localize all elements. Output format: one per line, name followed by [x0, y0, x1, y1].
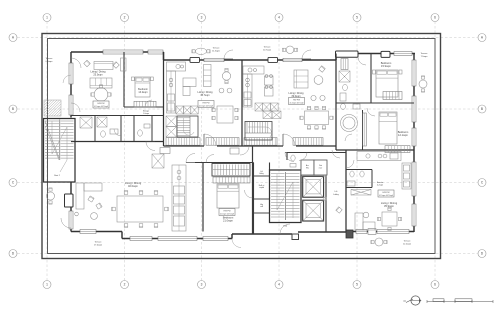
- corridor stair enclosure: [212, 164, 250, 177]
- svg-text:6: 6: [434, 16, 436, 20]
- svg-text:B: B: [481, 107, 483, 111]
- unit4 bath2 wc: [341, 104, 346, 110]
- window unit6 right: [412, 162, 416, 196]
- unit1 sofa bench: [90, 78, 112, 88]
- envelope step wall x163.5: [163, 52, 165, 60]
- grid bubble B right: [478, 105, 486, 113]
- elevator 2: [303, 200, 324, 221]
- acc wc room: [301, 160, 314, 175]
- wall marker unit2 top: [190, 57, 200, 62]
- envelope bottom wall west: [71, 231, 122, 233]
- svg-text:Terrace: Terrace: [264, 46, 272, 49]
- svg-text:1.0sqm: 1.0sqm: [143, 113, 149, 115]
- unit4 bed2: [379, 112, 397, 144]
- svg-text:12.2sqm: 12.2sqm: [403, 244, 411, 246]
- svg-text:N: N: [404, 299, 406, 303]
- terrace right table: [419, 80, 427, 88]
- unit3 wardrobe hatch row a: [255, 103, 263, 111]
- grid bubble C right: [478, 179, 486, 187]
- svg-text:35.7sqm: 35.7sqm: [200, 94, 209, 97]
- unit2 terrace door swing: [224, 50, 233, 59]
- svg-text:4.2sqm: 4.2sqm: [377, 185, 384, 187]
- unit4 bath2 tub: [341, 115, 358, 132]
- svg-text:41.5sqm 447.0sqft: 41.5sqm 447.0sqft: [379, 194, 393, 197]
- window unit5 left: [69, 211, 73, 229]
- unit4 ensuite shower: [339, 71, 350, 82]
- unit5 wardrobe row: [213, 177, 250, 183]
- unit6 area tag: [378, 190, 394, 197]
- unit3 clover chair a: [265, 76, 274, 85]
- unit2 poufs: [219, 88, 224, 93]
- unit2 kitchen counter top: [167, 62, 186, 71]
- lobby door arc: [332, 150, 340, 158]
- window unit4 right b: [412, 96, 416, 122]
- unit2 terrace table: [196, 48, 207, 54]
- svg-text:2: 2: [124, 16, 126, 20]
- terrace door unit2: [204, 58, 224, 61]
- grid bubble 4 top: [275, 14, 283, 22]
- svg-text:lobby: lobby: [259, 173, 263, 175]
- wc room fixtures: [291, 155, 295, 161]
- unit4 wardrobe row bed2: [385, 146, 410, 153]
- svg-text:11.3sqm: 11.3sqm: [212, 51, 220, 53]
- window unit1 top a: [103, 50, 143, 54]
- unit3 dining table: [305, 111, 329, 125]
- svg-text:40.0sqm: 40.0sqm: [128, 184, 138, 188]
- svg-text:HW FW: HW FW: [203, 102, 210, 104]
- parapet outer wall: [42, 34, 441, 259]
- rooflight box unit4 small: [381, 51, 390, 57]
- main stair treads left flight: [271, 173, 285, 175]
- unit2 wardrobe hatch: [176, 106, 183, 114]
- unit1 sofa: [94, 62, 113, 70]
- demising wall unit3/unit4: [335, 54, 337, 151]
- grid bubble D right: [478, 250, 486, 258]
- unit1 bedroom bed: [135, 77, 150, 97]
- svg-text:Lift: Lift: [335, 190, 338, 193]
- svg-text:riser: riser: [319, 167, 323, 169]
- unit3 area tag: [289, 98, 305, 105]
- unit4 bed1 side tables: [373, 70, 376, 74]
- bedroom5 right wall: [252, 146, 254, 234]
- wall unit1 bath zone: [71, 115, 164, 117]
- closet boxes corridor west: [152, 154, 164, 168]
- unit6 armchair: [336, 207, 342, 213]
- svg-text:3: 3: [201, 283, 203, 287]
- window unit1 left b: [69, 95, 73, 115]
- unit4 ensuite basin: [340, 93, 346, 101]
- core top rooms wall: [287, 152, 346, 154]
- unit4 terrace door arc top: [358, 57, 366, 65]
- parapet inner wall: [48, 39, 436, 254]
- svg-text:41.5sqm 447.0sqft: 41.5sqm 447.0sqft: [199, 104, 213, 107]
- unit5 kitchen counter: [172, 165, 186, 231]
- envelope bottom wall core: [232, 233, 292, 235]
- svg-text:41.5sqm 447.0sqft: 41.5sqm 447.0sqft: [290, 101, 304, 104]
- window unit5 bay c: [203, 237, 228, 241]
- scale bar: [427, 301, 493, 303]
- corridor south wall west: [195, 162, 254, 164]
- unit1 riser hatch: [80, 117, 92, 128]
- unit1 wc2 fixtures: [138, 130, 143, 136]
- grid line C: [18, 182, 478, 184]
- svg-text:7.9sqm: 7.9sqm: [421, 56, 428, 58]
- svg-text:Terrace: Terrace: [46, 57, 54, 60]
- wall unit1 bottom / unit5 top: [71, 141, 164, 143]
- riser shaft B: [324, 197, 326, 200]
- core bottom corridor door: [280, 224, 290, 234]
- unit1 bathroom wc: [101, 131, 106, 137]
- rooflight box unit4 long: [336, 51, 359, 57]
- unit3 terrace table: [286, 46, 294, 54]
- svg-text:15.9sqm: 15.9sqm: [381, 64, 391, 68]
- unit1 dining table: [94, 88, 108, 102]
- grid bubble 3 bottom: [198, 281, 206, 289]
- unit3 closet row a: [244, 138, 277, 146]
- svg-text:HW FW: HW FW: [224, 210, 231, 212]
- window unit6 bottom a: [356, 230, 367, 234]
- unit2 kitchen inner line: [170, 71, 172, 113]
- grid line 5: [356, 22, 358, 281]
- unit1 bedroom wardrobe stripes: [134, 101, 156, 107]
- envelope bottom bay wall: [122, 238, 232, 240]
- svg-text:cupbd: cupbd: [259, 187, 264, 189]
- svg-text:1: 1: [46, 283, 48, 287]
- svg-text:13.2sqm: 13.2sqm: [138, 91, 147, 94]
- unit2 bench seats: [204, 65, 212, 87]
- unit5 sofa: [76, 183, 84, 209]
- door unit6 terrace: [368, 229, 376, 235]
- unit6 tall counter: [402, 163, 411, 189]
- unit1 bedroom door arc: [145, 100, 152, 107]
- door arc unit2 entry: [204, 134, 216, 146]
- corridor stair treads: [214, 165, 216, 176]
- unit5 bedroom door arc: [245, 190, 253, 198]
- unit2 closet row a: [166, 138, 200, 146]
- grid bubble A right: [478, 34, 486, 42]
- envelope right wall: [413, 54, 415, 233]
- unit4 bed1: [376, 70, 398, 97]
- unit4 ensuite wc: [343, 84, 348, 90]
- unit1 storage wall: [124, 106, 164, 108]
- unit3 terrace door swing: [302, 50, 311, 59]
- unit5 entry door arc: [186, 154, 195, 163]
- window unit5 bay b: [158, 237, 197, 241]
- terrace left table: [47, 192, 55, 200]
- svg-text:HW FW: HW FW: [383, 192, 390, 194]
- core entry door arc b: [299, 153, 307, 161]
- grid bubble 1 bottom: [43, 281, 51, 289]
- unit6 sofa: [355, 213, 363, 230]
- grid line B: [18, 108, 478, 110]
- unit1 bathroom walls: [94, 116, 96, 142]
- unit4 bedroom2 door: [367, 108, 375, 116]
- svg-text:4: 4: [278, 283, 280, 287]
- main stair divider: [284, 172, 286, 220]
- stair2 treads flight B: [61, 120, 74, 122]
- unit6 bathroom walls: [346, 187, 372, 189]
- unit5 dining chairs: [124, 191, 128, 195]
- window unit1 top b: [148, 50, 163, 54]
- unit6 sideboard hatch: [351, 190, 371, 196]
- corridor door arc mid: [240, 146, 249, 155]
- unit5 floor lamp: [75, 212, 79, 216]
- wall unit4 bottom / unit6 top: [336, 149, 414, 151]
- terrace door arc bottom: [232, 239, 241, 248]
- grid line 3: [201, 22, 203, 281]
- svg-text:Stair 2: Stair 2: [54, 174, 61, 177]
- unit4 entry door arc: [345, 134, 352, 141]
- grid line 1: [46, 22, 48, 281]
- unit3 armchair diag: [319, 66, 325, 72]
- corridor door arc west: [206, 155, 214, 163]
- unit2 kitchen counter left: [167, 71, 176, 113]
- unit3 clover chair b: [265, 87, 274, 96]
- unit1 entry door arc: [146, 142, 155, 151]
- unit2 internal stair: [177, 116, 198, 137]
- grid bubble B left: [9, 105, 17, 113]
- stair2 enclosure: [44, 119, 76, 183]
- unit1 armchair left: [84, 60, 91, 67]
- grid bubble C left: [9, 179, 17, 187]
- envelope top wall unit1: [71, 51, 164, 53]
- unit5 area tag: [219, 209, 235, 216]
- unit6 entry door arc: [346, 160, 354, 168]
- riser room: [314, 160, 327, 175]
- stair2 treads flight A: [45, 120, 59, 122]
- svg-text:6: 6: [434, 283, 436, 287]
- unit4 closet row top: [383, 92, 402, 100]
- grid line 6: [434, 22, 436, 281]
- corridor stair centre line: [213, 169, 249, 171]
- corridor closet box b: [160, 148, 170, 154]
- riser shaft A: [324, 170, 326, 176]
- envelope bottom bay step b: [231, 234, 233, 239]
- svg-text:5: 5: [356, 283, 358, 287]
- unit5 dining table: [117, 196, 163, 222]
- elevator 1: [303, 176, 324, 197]
- unit4 bedroom1 wall: [336, 102, 414, 104]
- grid bubble 5 top: [353, 14, 361, 22]
- window unit5 bay a: [130, 237, 152, 241]
- left wall door box: [65, 194, 74, 207]
- unit1 armchair right: [113, 62, 120, 69]
- unit4 inner wall x362: [362, 110, 364, 150]
- unit3 poufs: [311, 95, 316, 100]
- envelope bottom bay step a: [121, 232, 123, 239]
- svg-text:Terrace: Terrace: [95, 241, 103, 244]
- grid bubble 4 bottom: [275, 281, 283, 289]
- elevator shaft east wall: [325, 170, 327, 232]
- unit5 left door arc: [61, 218, 71, 228]
- unit2 sofa chaise: [183, 78, 196, 87]
- unit1 terrace door arc left lower: [71, 103, 80, 112]
- window unit1 left a: [69, 63, 73, 84]
- terrace door arc left: [63, 75, 71, 83]
- window unit5 bottom west: [80, 230, 96, 234]
- window unit4 right a: [412, 60, 416, 86]
- grid line A: [18, 37, 478, 39]
- envelope left wall lower: [70, 182, 72, 232]
- unit2 dining table: [217, 106, 233, 123]
- door gap unit2 entry: [204, 144, 217, 147]
- svg-text:10.7sqm: 10.7sqm: [263, 50, 271, 52]
- unit4 duct below rooflight: [341, 59, 348, 70]
- demising wall unit1/unit2: [163, 52, 165, 146]
- grid bubble 1 top: [43, 14, 51, 22]
- core entry door arc a: [285, 153, 294, 162]
- unit1 bathroom shower: [97, 117, 107, 127]
- unit2 round table: [222, 72, 230, 80]
- unit2 closet row b: [206, 138, 239, 146]
- unit1 bedroom wall: [123, 52, 125, 107]
- grid bubble D left: [9, 250, 17, 258]
- svg-text:1: 1: [46, 16, 48, 20]
- demising wall unit2/unit3: [241, 60, 243, 146]
- svg-text:HW FW: HW FW: [293, 99, 300, 101]
- svg-text:Lobby: Lobby: [333, 194, 338, 196]
- unit1 tall cabinet: [121, 58, 127, 71]
- unit3 sofa: [294, 70, 308, 88]
- door gap unit3 entry: [283, 144, 296, 147]
- unit4 ensuite wall: [370, 54, 372, 104]
- grid bubble 3 top: [198, 14, 206, 22]
- svg-text:Terrace: Terrace: [213, 47, 221, 50]
- svg-text:4: 4: [278, 16, 280, 20]
- unit1 area tag: [93, 101, 109, 108]
- window unit6 right b: [412, 204, 416, 226]
- svg-text:B: B: [12, 107, 14, 111]
- unit4 bath2 basin: [353, 104, 360, 109]
- stair2 center divider: [59, 120, 61, 161]
- column bottom unit6: [346, 230, 353, 238]
- unit6 dining table: [382, 212, 397, 226]
- svg-text:17.0sqm: 17.0sqm: [94, 245, 102, 247]
- unit3 wardrobe hatch row b: [263, 111, 272, 119]
- unit5 bed: [217, 184, 239, 208]
- window unit4 right c: [412, 128, 416, 146]
- unit1 bed side tables: [132, 77, 135, 81]
- stair2 flight A diagonal: [45, 121, 59, 158]
- unit6 left wall: [345, 150, 347, 232]
- wall units2-3 bottom / corridor north: [164, 145, 337, 147]
- grid bubble 5 bottom: [353, 281, 361, 289]
- grid line D: [18, 253, 478, 255]
- grid bubble 6 bottom: [431, 281, 439, 289]
- unit6 bathroom fixtures: [350, 171, 354, 177]
- terrace bottom-right table: [375, 238, 383, 246]
- grid bubble 2 bottom: [121, 281, 129, 289]
- grid line 2: [124, 22, 126, 281]
- terrace door unit3: [283, 58, 302, 61]
- window unit6 bottom b: [377, 230, 409, 234]
- terrace top-left planter: [44, 100, 61, 116]
- svg-text:6.9sqm: 6.9sqm: [46, 61, 53, 63]
- svg-text:Terrace: Terrace: [421, 52, 429, 55]
- lift overrun jog: [292, 234, 299, 240]
- unit1 bathroom basin: [110, 129, 118, 134]
- bedroom5 left wall: [202, 163, 204, 232]
- unit2 stair side cabinets: [166, 116, 177, 127]
- unit1 terrace door arc top-left: [71, 58, 81, 68]
- grid bubble 6 top: [431, 14, 439, 22]
- svg-text:25.3sqm: 25.3sqm: [93, 73, 102, 76]
- core service column walls: [253, 163, 255, 235]
- unit2 area tag: [198, 101, 214, 108]
- unit3 closet row b: [293, 138, 323, 146]
- unit5 kitchen inner line: [178, 165, 180, 231]
- north arrow: [411, 296, 420, 305]
- window unit4 top: [394, 52, 412, 56]
- unit5 coffee table: [91, 213, 98, 220]
- grid bubble 2 top: [121, 14, 129, 22]
- envelope bottom wall unit6: [353, 231, 414, 233]
- main stair treads right flight: [286, 173, 300, 175]
- main stair walk line: [277, 174, 293, 218]
- stair2 walk line: [52, 121, 67, 172]
- envelope top wall unit4: [336, 53, 415, 55]
- main stair shaft: [270, 170, 302, 223]
- unit3 kitchen inner line: [247, 74, 249, 107]
- corridor closet box: [230, 148, 239, 154]
- grid line 4: [278, 22, 280, 281]
- unit5 armchairs: [88, 196, 94, 202]
- svg-text:3: 3: [201, 16, 203, 20]
- unit6 kitchen counter: [357, 152, 401, 161]
- svg-text:cab: cab: [260, 206, 263, 208]
- unit6 coffee table: [363, 212, 369, 218]
- envelope left wall: [70, 52, 72, 118]
- envelope step wall x336: [335, 54, 337, 61]
- grid bubble A left: [9, 34, 17, 42]
- svg-text:Terrace: Terrace: [404, 240, 412, 243]
- svg-text:41.5sqm 447.0sqft: 41.5sqm 447.0sqft: [94, 105, 108, 108]
- envelope bottom wall mid: [298, 231, 346, 233]
- door arc unit3 entry: [283, 134, 295, 146]
- svg-text:41.5sqm 447.0sqft: 41.5sqm 447.0sqft: [220, 212, 234, 215]
- unit1 bath door arc: [114, 129, 121, 136]
- svg-text:21.0sqm: 21.0sqm: [223, 219, 233, 223]
- unit3 kitchen counter top: [243, 66, 264, 74]
- envelope top wall units 2-3: [164, 59, 337, 61]
- unit3 internal stair: [245, 122, 272, 141]
- svg-text:5: 5: [356, 16, 358, 20]
- svg-text:2: 2: [124, 283, 126, 287]
- svg-text:HW FW: HW FW: [98, 103, 105, 105]
- unit4 duct stripe: [363, 113, 367, 146]
- unit3 kitchen counter left: [243, 74, 252, 107]
- unit3 round table: [314, 76, 323, 85]
- wall marker unit3 top: [268, 57, 278, 62]
- svg-text:12.1sqm: 12.1sqm: [398, 133, 408, 137]
- unit1 dining chairs: [99, 85, 102, 88]
